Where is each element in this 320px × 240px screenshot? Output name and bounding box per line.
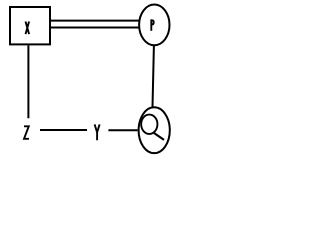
wire edge Y-Q (horizontal) <box>108 129 137 131</box>
label Q <box>141 115 164 140</box>
node Q (ellipse) <box>139 107 170 153</box>
wire edge P-Q (vertical) <box>153 46 154 108</box>
wire edge Z-Y (horizontal) <box>40 129 87 131</box>
node P (ellipse) <box>139 5 169 46</box>
node Z (text) <box>24 126 29 139</box>
wire edge X-Z (vertical) <box>27 46 29 119</box>
wire double edge X=P (top line) <box>50 20 139 22</box>
label P <box>151 19 153 30</box>
wire double edge X=P (bottom line) <box>50 27 139 29</box>
node Y (text) <box>95 124 100 140</box>
label X <box>26 22 30 35</box>
node X (square box) <box>10 7 50 44</box>
